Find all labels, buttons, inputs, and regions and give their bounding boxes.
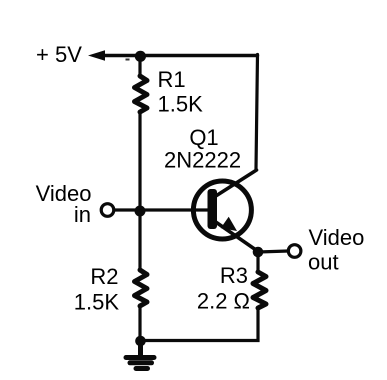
resistor R2 <box>135 270 148 306</box>
transistor Q1 base bar <box>208 189 218 229</box>
transistor Q1 emitter lead <box>215 222 258 252</box>
resistor R3 <box>253 272 266 308</box>
wire base node to R2 <box>138 211 141 270</box>
terminal Video in <box>101 204 114 217</box>
svg-text:1.5K: 1.5K <box>74 290 120 315</box>
svg-text:out: out <box>308 250 339 275</box>
svg-text:+ 5V: + 5V <box>36 42 82 67</box>
svg-text:Q1: Q1 <box>189 125 218 150</box>
svg-text:in: in <box>74 202 91 227</box>
junction dot emitter node <box>253 247 264 258</box>
svg-text:Video: Video <box>309 225 365 250</box>
wire base <box>115 208 209 211</box>
wire R1 bottom to base node <box>138 112 141 210</box>
resistor R1 <box>135 76 148 112</box>
junction dot base node <box>135 206 146 217</box>
scan artifact dash <box>126 59 130 61</box>
svg-text:R2: R2 <box>90 264 118 289</box>
transistor Q1 collector lead <box>215 170 257 197</box>
svg-text:2.2 Ω: 2.2 Ω <box>197 289 250 314</box>
junction dot ground node <box>135 336 146 347</box>
transistor Q1 emitter arrowhead <box>221 217 237 231</box>
terminal Video out <box>288 245 301 258</box>
wire R3 bottom to ground rail <box>141 308 258 341</box>
wire R2 bottom stub <box>138 305 141 341</box>
wire R1 top stub <box>138 56 141 76</box>
svg-text:R1: R1 <box>158 67 186 92</box>
junction dot top <box>135 51 146 62</box>
wire emitter to video out <box>258 251 288 252</box>
svg-text:1.5K: 1.5K <box>158 92 204 117</box>
ground <box>126 341 154 369</box>
svg-text:2N2222: 2N2222 <box>164 148 241 173</box>
wire collector vertical <box>256 55 258 170</box>
transistor Q1 circle <box>193 181 251 239</box>
wire top horizontal rail <box>100 54 258 57</box>
wire emitter node to R3 <box>256 252 259 272</box>
arrow to +5V <box>88 50 105 61</box>
svg-text:R3: R3 <box>220 263 248 288</box>
